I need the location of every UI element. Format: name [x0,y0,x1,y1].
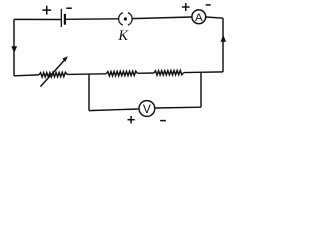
svg-text:A: A [195,12,203,24]
svg-text:V: V [143,102,151,116]
svg-text:K: K [117,28,129,44]
